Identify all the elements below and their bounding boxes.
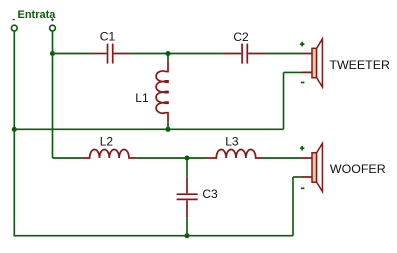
wire: middle horizontal net (L1 bottom / tweeter return) [14, 128, 283, 130]
wire: left input vertical (negative rail) [13, 32, 15, 236]
wire: tweeter return horizontal [284, 71, 303, 73]
speaker: woofer symbol [302, 143, 323, 191]
svg-text:WOOFER: WOOFER [330, 162, 386, 176]
label: woofer plus [300, 146, 305, 151]
node: junction input plus / top net [50, 51, 55, 56]
node: junction middle net / left rail [12, 127, 17, 132]
svg-text:TWEETER: TWEETER [329, 58, 390, 72]
wire: C3 bottom stub [186, 217, 188, 236]
wire: woofer net L3 to woofer [262, 157, 302, 159]
wire: woofer return vertical [292, 177, 294, 236]
node: junction middle net / L1 bottom [165, 127, 170, 132]
label: tweeter plus [300, 42, 305, 47]
svg-text:L3: L3 [225, 134, 239, 148]
svg-text:C3: C3 [202, 187, 218, 201]
inductor L2 [81, 149, 136, 158]
wire: C3 top stub [186, 158, 188, 177]
svg-text:C1: C1 [100, 30, 116, 44]
wire: L1 bottom stub [167, 121, 169, 130]
terminal: input positive [50, 25, 56, 31]
node: junction top net / L1 top [165, 51, 170, 56]
wire: woofer net L2 to L3 [137, 157, 207, 159]
label: input minus sign [13, 19, 16, 21]
label: tweeter minus [301, 82, 305, 84]
node: junction bottom net / C3 bottom [184, 233, 189, 238]
svg-text:C2: C2 [233, 30, 249, 44]
inductor L3 [207, 149, 263, 158]
capacitor C3 [177, 177, 198, 217]
svg-text:L1: L1 [135, 91, 149, 105]
label: input plus sign [51, 18, 54, 21]
svg-text:L2: L2 [100, 134, 114, 148]
svg-text:Entrata: Entrata [18, 9, 57, 21]
wire: right input vertical (positive feed) [52, 32, 54, 158]
wire: top net segment input to C1 [53, 53, 92, 55]
wire: top net segment C2 to tweeter [266, 53, 302, 55]
inductor L1 [156, 62, 168, 121]
wire: bottom horizontal (ground return) [13, 235, 293, 237]
wire: tweeter return vertical [283, 72, 285, 129]
speaker: tweeter symbol [302, 39, 323, 87]
capacitor C1 [91, 44, 130, 64]
wire: woofer return horizontal [293, 176, 302, 178]
label: woofer minus [301, 187, 305, 189]
wire: L1 top stub [167, 54, 169, 63]
terminal: input negative [11, 25, 17, 31]
node: junction woofer net / C3 top [184, 155, 189, 160]
wire: top net segment C1 to C2 [130, 53, 224, 55]
capacitor C2 [224, 44, 266, 64]
wire: woofer net input to L2 [53, 157, 82, 159]
